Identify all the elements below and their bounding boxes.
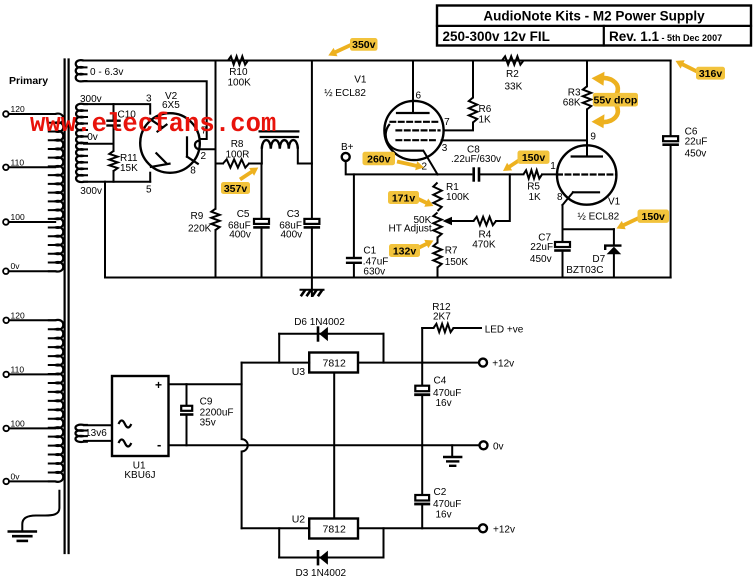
tube V2 6X5 envelope	[140, 113, 200, 173]
svg-text:U2: U2	[292, 514, 306, 526]
resistor R1	[433, 183, 441, 212]
wire (R8 to choke/C5 node)	[249, 163, 262, 165]
svg-text:300v: 300v	[80, 186, 102, 197]
svg-text:0v: 0v	[11, 471, 21, 481]
svg-text:35v: 35v	[200, 417, 216, 428]
ground (chassis, bottom left)	[9, 530, 36, 533]
regulator U3 7812	[309, 353, 358, 373]
svg-text:470K: 470K	[472, 240, 496, 251]
svg-text:150v: 150v	[522, 152, 546, 164]
svg-text:7812: 7812	[323, 358, 347, 370]
svg-text:100K: 100K	[228, 78, 252, 89]
wire (V2 pin 2 to HT node)	[199, 148, 215, 150]
V1 pentode grid g3	[397, 139, 438, 141]
svg-text:LED +ve: LED +ve	[485, 325, 524, 336]
wire (V2 pin 5 lead)	[149, 173, 151, 182]
wire (C10 to 0v tap junction)	[113, 127, 115, 151]
title block frame	[437, 6, 751, 46]
svg-text:C1: C1	[363, 245, 376, 256]
wire (R7 to 0v rail)	[437, 268, 439, 278]
svg-text:3: 3	[442, 143, 448, 154]
resistor R6	[469, 98, 477, 123]
wire (V1 screen rail vertical)	[311, 61, 313, 219]
wire (regulator ground pins)	[333, 373, 335, 519]
svg-text:R5: R5	[527, 182, 540, 193]
wire (C6 bottom to 0v rail)	[670, 147, 672, 278]
terminal 100 (lower primary tap)	[3, 426, 9, 432]
svg-text:R9: R9	[191, 211, 204, 222]
wire (rail corner down to C6)	[670, 61, 672, 137]
bridge rectifier U1 KBU6J	[112, 376, 169, 456]
V1 pentode cathode lead to pin 2	[423, 151, 437, 175]
svg-text:110: 110	[11, 157, 25, 167]
svg-text:C4: C4	[434, 376, 447, 387]
V1 pentode grid g2	[397, 129, 440, 131]
svg-text:+12v: +12v	[493, 525, 515, 536]
potentiometer 50K HT Adjust	[433, 213, 441, 238]
svg-text:150K: 150K	[445, 257, 469, 268]
wire (rail to V1 pin 6)	[412, 61, 414, 114]
svg-text:316v: 316v	[699, 68, 723, 80]
resistor R8	[223, 159, 249, 167]
wire (choke left lead)	[261, 149, 263, 164]
svg-text:450v: 450v	[530, 254, 552, 265]
V1 pentode plate	[397, 112, 429, 114]
diode D6 1N4002	[278, 334, 280, 363]
transformer secondary 13v6 winding	[75, 425, 83, 442]
svg-text:KBU6J: KBU6J	[124, 470, 155, 481]
svg-text:BZT03C: BZT03C	[566, 265, 603, 276]
V1 triode plate	[572, 155, 602, 157]
svg-text:5: 5	[146, 185, 152, 196]
wire (R6 top to rail)	[472, 61, 474, 98]
resistor R10	[228, 56, 248, 64]
V1 triode cathode	[573, 191, 599, 193]
capacitor C2	[415, 495, 429, 501]
wire (cathode node horizontal)	[563, 228, 614, 230]
capacitor C7	[562, 229, 564, 242]
tube V1 pentode envelope	[384, 101, 443, 160]
svg-text:½ ECL82: ½ ECL82	[578, 211, 620, 222]
svg-text:220K: 220K	[188, 224, 212, 235]
wire (R3 to V1 triode pin 9)	[586, 109, 588, 156]
svg-text:7: 7	[444, 117, 450, 128]
svg-text:68K: 68K	[563, 98, 581, 109]
wire (U2 output wire)	[358, 527, 479, 529]
wire (bridge + output)	[169, 383, 242, 385]
capacitor C3	[304, 219, 319, 224]
capacitor C9	[186, 384, 188, 406]
svg-text:R10: R10	[229, 67, 248, 78]
svg-text:C3: C3	[287, 209, 300, 220]
svg-text:120: 120	[11, 104, 25, 114]
resistor R9	[211, 209, 219, 230]
svg-text:16v: 16v	[436, 510, 452, 521]
svg-text:HT Adjust: HT Adjust	[389, 224, 432, 235]
wire (U3 input wire)	[242, 362, 310, 364]
svg-text:R2: R2	[506, 69, 519, 80]
svg-text:½ ECL82: ½ ECL82	[324, 88, 366, 99]
svg-text:8: 8	[190, 165, 196, 176]
transformer core	[63, 60, 65, 554]
svg-text:100R: 100R	[226, 150, 250, 161]
wire (U2 input wire)	[242, 527, 310, 529]
wire (6.3v bottom lead to V2 pin 7)	[84, 81, 207, 139]
terminal +12v (upper)	[479, 359, 487, 367]
svg-text:R8: R8	[231, 139, 244, 150]
transformer primary winding (lower)	[55, 320, 63, 482]
wire (13v6 to bridge AC1)	[84, 424, 112, 426]
wire (pot to R7)	[437, 238, 439, 243]
svg-text:260v: 260v	[367, 153, 391, 165]
svg-text:1K: 1K	[479, 115, 492, 126]
wire (choke right lead)	[298, 149, 312, 164]
svg-text:B+: B+	[341, 142, 354, 153]
wire (pin7 to R6)	[444, 123, 474, 131]
resistor R5	[523, 170, 542, 178]
svg-text:D7: D7	[592, 254, 605, 265]
voltage callout 171v	[414, 197, 427, 203]
wire (0v to C2)	[421, 445, 423, 495]
svg-text:D3 1N4002: D3 1N4002	[296, 568, 347, 579]
wire (U3 output wire)	[358, 362, 479, 364]
svg-text:22uF: 22uF	[530, 242, 553, 253]
svg-text:450v: 450v	[685, 149, 707, 160]
V1 triode grid	[557, 173, 616, 175]
wire (6.3v top lead / 350v HT rail)	[84, 60, 671, 62]
resistor R7	[433, 243, 441, 268]
svg-text:1K: 1K	[529, 192, 542, 203]
wire (300v top lead to V2 pin 3)	[84, 104, 150, 114]
diode D3 1N4002	[278, 528, 280, 557]
svg-text:R6: R6	[479, 104, 492, 115]
choke core	[260, 130, 299, 132]
svg-text:55v drop: 55v drop	[594, 95, 638, 107]
svg-text:357v: 357v	[224, 183, 248, 195]
wire (R4 to C8 node)	[496, 174, 510, 221]
resistor R12	[421, 328, 423, 363]
V1 pentode grid g1	[391, 121, 438, 123]
svg-text:0v: 0v	[11, 261, 21, 271]
ground (hatched, below 0v rail)	[301, 289, 324, 291]
wire (rail to R3)	[586, 61, 588, 87]
wire (rail junction down thru V2 node to R9)	[215, 61, 217, 209]
voltage callout 132v	[414, 244, 427, 250]
svg-text:0 - 6.3v: 0 - 6.3v	[90, 67, 123, 78]
terminal 120 (lower primary tap)	[3, 318, 9, 324]
svg-text:110: 110	[11, 364, 25, 374]
wire (R9 bottom to 0v rail)	[215, 230, 217, 278]
terminal 0v (upper primary tap)	[3, 268, 9, 274]
V2 heater	[186, 137, 188, 156]
resistor R4	[474, 217, 497, 225]
zener diode D7 BZT03C	[613, 229, 615, 244]
voltage callout 55v drop	[602, 78, 618, 96]
wire (pin3 rail to C10)	[113, 104, 115, 119]
svg-text:120: 120	[11, 310, 25, 320]
svg-text:+: +	[155, 378, 162, 392]
svg-text:AudioNote Kits - M2 Power Supp: AudioNote Kits - M2 Power Supply	[483, 9, 705, 24]
svg-text:630v: 630v	[363, 267, 385, 278]
svg-text:-: -	[157, 437, 161, 452]
wire (0v bottom rail)	[105, 277, 671, 279]
voltage callout 350v	[335, 44, 354, 53]
svg-text:13v6: 13v6	[85, 428, 107, 439]
svg-text:400v: 400v	[229, 230, 251, 241]
capacitor C6	[663, 136, 678, 141]
transformer secondary HT winding	[76, 104, 84, 182]
capacitor C1	[353, 174, 355, 256]
wire (C8 to R5)	[480, 173, 523, 175]
svg-text:0v: 0v	[493, 442, 504, 453]
svg-text:C2: C2	[434, 487, 447, 498]
svg-text:150v: 150v	[642, 211, 666, 223]
transformer primary winding (upper)	[55, 114, 63, 272]
svg-text:9: 9	[590, 132, 596, 143]
svg-text:22uF: 22uF	[685, 137, 708, 148]
svg-text:100K: 100K	[446, 192, 470, 203]
voltage callout 260v	[363, 152, 396, 165]
svg-text:3: 3	[146, 94, 152, 105]
V2 anode plate (upper)	[150, 119, 161, 127]
svg-text:.22uF/630v: .22uF/630v	[451, 154, 501, 165]
choke winding	[262, 140, 298, 149]
resistor R11	[109, 151, 117, 171]
svg-text:100: 100	[11, 212, 25, 222]
capacitor C4	[421, 363, 423, 386]
svg-text:V1: V1	[608, 197, 621, 208]
svg-text:C5: C5	[237, 209, 250, 220]
tube V1 triode envelope	[557, 145, 616, 204]
svg-text:2: 2	[201, 151, 207, 162]
V2 cathode hook	[195, 141, 200, 150]
svg-text:+12v: +12v	[492, 359, 514, 370]
voltage callout 150v (at C8)	[509, 159, 521, 167]
ground (at 0v terminal)	[451, 445, 453, 457]
wire (bridge - output / 0v line)	[169, 444, 484, 446]
wire (R11 bottom)	[113, 171, 115, 182]
wire (HT winding bottom to 0v rail)	[84, 181, 150, 183]
wire (R1 node to C8)	[438, 173, 472, 175]
svg-text:Primary: Primary	[9, 75, 48, 87]
capacitor C10	[106, 120, 120, 122]
V1 pentode cathode	[386, 124, 424, 151]
wire (B+ to main node wire)	[346, 161, 438, 174]
svg-text:C9: C9	[200, 397, 213, 408]
terminal +12v (lower)	[479, 524, 487, 532]
svg-text:U3: U3	[292, 366, 306, 378]
terminal 0v (lower primary tap)	[3, 479, 9, 485]
transformer secondary 0-6.3v winding	[76, 60, 84, 81]
svg-text:171v: 171v	[392, 192, 416, 204]
svg-text:V1: V1	[354, 75, 367, 86]
svg-text:132v: 132v	[393, 245, 417, 257]
svg-text:400v: 400v	[281, 230, 303, 241]
wire (R5 to V1 triode pin 1)	[542, 173, 557, 175]
svg-text:R7: R7	[445, 246, 458, 257]
wire (transformer earth lead)	[22, 490, 59, 531]
svg-text:470uF: 470uF	[433, 499, 461, 510]
resistor R2	[502, 56, 524, 64]
svg-text:8: 8	[557, 192, 563, 203]
svg-text:www.elecfans.com: www.elecfans.com	[30, 110, 276, 139]
svg-text:1: 1	[550, 161, 556, 172]
V1 triode cathode lead	[563, 192, 574, 205]
svg-text:D6 1N4002: D6 1N4002	[294, 317, 345, 328]
svg-text:350v: 350v	[352, 39, 376, 51]
terminal 0v	[480, 441, 488, 449]
wire (HT centre tap)	[84, 143, 114, 145]
terminal 100 (upper primary tap)	[3, 219, 9, 225]
voltage callout 150v (at D7)	[623, 216, 644, 226]
resistor R3	[583, 86, 591, 109]
wire (V2 node to R8)	[216, 163, 224, 165]
wire (+ rail up to U3 input, with hop over 0v)	[242, 363, 248, 529]
regulator U2 7812	[309, 519, 358, 539]
svg-text:2K7: 2K7	[433, 312, 451, 323]
capacitor C5	[261, 164, 263, 219]
capacitor C8	[472, 167, 475, 181]
svg-text:100: 100	[11, 418, 25, 428]
terminal 110 (upper primary tap)	[3, 165, 9, 171]
terminal 120 (upper primary tap)	[3, 111, 9, 117]
terminal 110 (lower primary tap)	[3, 372, 9, 378]
svg-text:7812: 7812	[323, 524, 347, 536]
voltage callout 357v	[240, 171, 252, 179]
voltage callout 316v	[682, 64, 700, 73]
V2 anode plate (lower)	[156, 153, 166, 163]
wire (13v6 to bridge AC2)	[84, 440, 112, 442]
wire (pin3 to triode plate node)	[442, 139, 588, 141]
svg-text:250-300v 12v FIL: 250-300v 12v FIL	[443, 29, 550, 44]
svg-text:15K: 15K	[120, 163, 138, 174]
svg-text:16v: 16v	[436, 398, 452, 409]
svg-text:33K: 33K	[505, 81, 523, 92]
